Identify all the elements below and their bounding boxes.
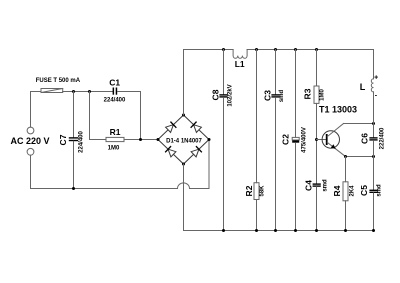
- svg-text:C2: C2: [280, 134, 290, 145]
- node bridge top vertex: [182, 114, 185, 117]
- svg-text:R4: R4: [332, 185, 342, 196]
- diode D bottom-left: [166, 147, 176, 157]
- resistor R1: [106, 137, 124, 141]
- node junction C7 top: [72, 90, 75, 93]
- svg-text:224/400: 224/400: [104, 98, 126, 104]
- svg-text:1M0: 1M0: [319, 89, 325, 101]
- node rail R3: [315, 48, 318, 51]
- capacitor C5: [373, 157, 375, 190]
- svg-text:smd: smd: [279, 90, 285, 103]
- terminal AC bottom: [27, 148, 34, 155]
- svg-text:58K: 58K: [260, 185, 266, 197]
- svg-text:AC 220 V: AC 220 V: [10, 136, 49, 146]
- svg-text:T1 13003: T1 13003: [319, 104, 357, 114]
- node bottom right corner: [372, 229, 375, 232]
- wire bottom rail: [184, 230, 374, 232]
- wire fuse to C1: [63, 91, 113, 93]
- capacitor C3: [275, 50, 277, 95]
- svg-text:L1: L1: [235, 59, 245, 69]
- svg-text:smd: smd: [377, 184, 383, 197]
- wire bridge top to rail: [183, 50, 185, 116]
- diode D bottom-right: [191, 147, 201, 157]
- terminal AC top: [27, 127, 34, 134]
- node base junction: [315, 138, 318, 141]
- node rail C3: [274, 48, 277, 51]
- wire loop-left vertical: [89, 92, 91, 140]
- wire AC neutral down: [30, 155, 32, 188]
- node emitter R4: [344, 155, 347, 158]
- wire top rail right: [247, 49, 373, 51]
- node junction C7 bottom: [72, 187, 75, 190]
- transistor T1 13003: [322, 124, 345, 157]
- resistor R3: [316, 50, 318, 87]
- node junction loop-left top: [88, 90, 91, 93]
- capacitor C2: [295, 50, 297, 138]
- inductor L1: [233, 50, 247, 59]
- wire AC neutral horizontal: [31, 188, 178, 190]
- node rail R2: [255, 48, 258, 51]
- node bottom C3: [274, 229, 277, 232]
- inductor L: [371, 79, 373, 92]
- svg-text:R3: R3: [303, 88, 313, 99]
- node rail C8: [222, 48, 225, 51]
- capacitor C6: [373, 124, 375, 138]
- svg-text:D1-4 1N4007: D1-4 1N4007: [166, 139, 202, 145]
- svg-text:475/400V: 475/400V: [301, 127, 307, 153]
- wire right rail top: [373, 50, 375, 79]
- svg-text:FUSE T 500 mA: FUSE T 500 mA: [36, 78, 81, 84]
- diode D top-right: [191, 122, 201, 132]
- node emitter rail: [372, 155, 375, 158]
- resistor R4: [345, 157, 347, 182]
- node bottom R2: [255, 229, 258, 232]
- wire AC live vertical: [30, 92, 32, 128]
- node bottom C2: [294, 229, 297, 232]
- wire neutral to bridge right vertex: [190, 140, 210, 189]
- node bottom R4: [344, 229, 347, 232]
- bridge rectifier D1-4 1N4007: [158, 115, 209, 164]
- fuse FUSE T 500 mA: [41, 89, 63, 93]
- svg-text:+: +: [374, 75, 378, 82]
- node collector rail: [372, 122, 375, 125]
- wire C1 to loop-right corner: [118, 92, 141, 140]
- svg-text:C4: C4: [304, 180, 314, 191]
- wire emitter row: [346, 156, 374, 158]
- svg-text:R1: R1: [110, 127, 121, 137]
- svg-text:2K4: 2K4: [350, 185, 356, 197]
- capacitor C7: [73, 92, 75, 138]
- wire bridge bottom drop: [183, 164, 185, 231]
- svg-text:C6: C6: [359, 133, 369, 144]
- svg-text:C8: C8: [211, 89, 221, 100]
- capacitor C8: [223, 50, 225, 95]
- svg-text:224/400: 224/400: [79, 131, 85, 153]
- node bridge bottom vertex: [182, 163, 185, 166]
- node bottom C4: [315, 229, 318, 232]
- wire collector: [344, 123, 374, 125]
- wire R1 to bridge: [124, 139, 158, 141]
- node bottom C8: [222, 229, 225, 232]
- node bridge left vertex: [157, 138, 160, 141]
- svg-text:C1: C1: [109, 78, 120, 88]
- svg-text:C3: C3: [262, 90, 272, 101]
- svg-text:222/400: 222/400: [380, 127, 386, 149]
- wire loop bottom left: [90, 139, 107, 141]
- diode D top-left: [166, 122, 176, 132]
- wire hop over bridge drop: [178, 183, 190, 189]
- capacitor C4: [313, 183, 321, 186]
- capacitor C1: [113, 88, 118, 95]
- svg-text:smd: smd: [322, 179, 328, 192]
- svg-text:102/2kV: 102/2kV: [228, 84, 234, 106]
- wire top rail left: [184, 49, 234, 51]
- svg-text:C5: C5: [359, 185, 369, 196]
- svg-text:L: L: [360, 82, 366, 92]
- svg-text:1M0: 1M0: [108, 145, 120, 151]
- node rail C2: [294, 48, 297, 51]
- resistor R2: [256, 50, 258, 183]
- node bridge right vertex: [208, 138, 211, 141]
- wire base: [317, 139, 326, 141]
- svg-text:R2: R2: [244, 185, 254, 196]
- node junction loop-right bottom: [139, 138, 142, 141]
- svg-text:C7: C7: [58, 134, 68, 145]
- wire fuse-row left: [31, 91, 42, 93]
